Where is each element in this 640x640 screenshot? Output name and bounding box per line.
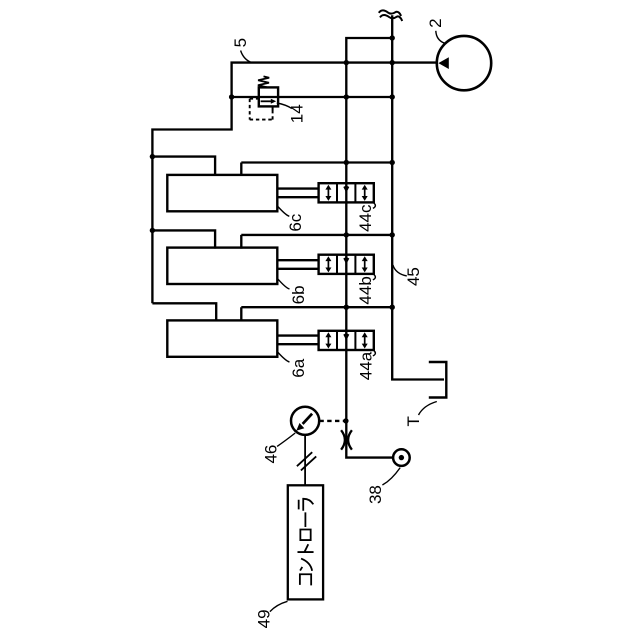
- leader for label 5: [241, 51, 252, 63]
- junction right rail / rung 6c: [390, 160, 395, 165]
- svg-text:6c: 6c: [286, 213, 305, 231]
- tank T symbol: [429, 362, 447, 398]
- cylinder 6c body: [167, 175, 277, 211]
- pump 2 circle: [437, 36, 491, 90]
- junction left rail / rung 6c: [344, 160, 349, 165]
- relief valve 14 spring: [258, 76, 269, 87]
- junction left rail / gauge pilot line: [343, 418, 348, 423]
- katakana to: [297, 544, 313, 552]
- valve 44c supply arrowhead on rail: [343, 185, 349, 192]
- svg-text:T: T: [404, 416, 423, 426]
- valve 44a cell dividers: [337, 331, 355, 350]
- relief valve 14 flow arrow: [261, 100, 272, 102]
- leader for label 44c: [373, 203, 376, 208]
- wire: branch to cylinder 6a head: [152, 303, 216, 321]
- leader for label 38: [382, 468, 400, 485]
- katakana n: [300, 559, 312, 571]
- cylinder 6a body: [167, 320, 277, 356]
- svg-text:5: 5: [231, 38, 250, 47]
- leader for label 14: [277, 103, 292, 109]
- svg-text:6b: 6b: [289, 285, 308, 304]
- cylinder 6b body: [167, 248, 277, 284]
- valve 44a right-cell double arrow: [362, 332, 368, 348]
- junction left rail / rung 6a: [344, 305, 349, 310]
- svg-text:44b: 44b: [356, 276, 375, 304]
- svg-text:2: 2: [426, 18, 445, 27]
- pressure sensor 38: [393, 449, 410, 466]
- svg-text:49: 49: [255, 609, 274, 628]
- wire: rung for valve 44b and cylinder 6b: [241, 235, 392, 249]
- wire: rung for valve 44c and cylinder 6c: [241, 163, 392, 177]
- valve 44c body: [319, 183, 374, 202]
- wire: line 5 (pump line, vertical drop, horizontal, manifold): [152, 63, 437, 304]
- junction right rail / relief line: [390, 94, 395, 99]
- valve 44b supply arrowhead on rail: [343, 257, 349, 264]
- valve 44c right-cell double arrow: [362, 185, 368, 201]
- junction dots: [150, 35, 395, 423]
- signal break slashes: [297, 452, 316, 470]
- controller 49 katakana text (hand-drawn strokes): [297, 499, 313, 586]
- valve 44a left-cell double arrow: [325, 332, 331, 348]
- valve 44b cell dividers: [337, 255, 355, 274]
- leader for label 49: [270, 601, 288, 611]
- katakana long bar: [304, 512, 306, 527]
- text labels (rotated 90 ccw): [231, 18, 445, 628]
- katakana ko: [300, 574, 311, 585]
- katakana ra: [299, 499, 314, 511]
- junction left rail / rung 6b: [344, 232, 349, 237]
- leader for label 6a: [278, 352, 290, 362]
- leader for label 45: [393, 265, 407, 276]
- svg-text:38: 38: [366, 485, 385, 504]
- relief valve 14 pilot stub: [272, 106, 274, 110]
- svg-text:6a: 6a: [289, 358, 308, 377]
- katakana ro: [300, 530, 310, 541]
- leader for label 44b: [373, 275, 376, 280]
- valve 44b left-cell double arrow: [325, 256, 331, 272]
- pump 2 output triangle: [438, 57, 448, 69]
- pipe break squiggle at top of right rail: [379, 10, 402, 21]
- svg-text:44a: 44a: [356, 351, 375, 380]
- wire: relief line y=97: [231, 96, 392, 98]
- junction manifold / branch 6c: [150, 154, 155, 159]
- leader lines: [241, 31, 445, 612]
- wire: rod lines cylinder 6c to valve 44c: [277, 189, 318, 198]
- relief valve 14 dashed pilot box: [250, 99, 273, 120]
- wire: branch to cylinder 6c head: [152, 157, 215, 176]
- junction manifold / branch 6b: [150, 228, 155, 233]
- wire: branch to cylinder 6b head: [152, 230, 215, 248]
- valve 44b right-cell double arrow: [362, 256, 368, 272]
- pressure gauge 46: [291, 407, 319, 435]
- valve 44b body: [319, 255, 374, 274]
- wire: rung for valve 44a and cylinder 6a: [241, 307, 392, 321]
- wire: signal line gauge to controller: [304, 435, 306, 486]
- junction left rail / relief line: [344, 94, 349, 99]
- valve 44c left-cell double arrow: [325, 185, 367, 349]
- svg-text:14: 14: [287, 104, 306, 123]
- svg-text:44c: 44c: [356, 204, 375, 232]
- valve 44a body: [319, 331, 374, 350]
- junction right rail / pump line: [390, 60, 395, 65]
- leader for label T: [419, 402, 437, 416]
- svg-text:45: 45: [404, 267, 423, 286]
- gauge 46 needle: [303, 414, 313, 424]
- shutoff/throttle valve on pilot line: [341, 430, 352, 450]
- relief valve 14 body: [250, 76, 278, 119]
- leader for label 44a: [373, 351, 376, 356]
- valve 44c cell dividers: [337, 183, 355, 202]
- leader for label 6b: [278, 279, 290, 289]
- wire: rod lines cylinder 6b to valve 44b: [277, 260, 318, 269]
- dashed pilot line gauge to rail: [319, 420, 344, 422]
- junction right rail / top rung: [390, 35, 395, 40]
- wire: right rail (pump discharge line) vertical + tank feed: [392, 15, 444, 379]
- junction left rail / pump line: [344, 60, 349, 65]
- leader for label 6c: [277, 206, 289, 216]
- valve 44a supply arrowhead on rail: [343, 333, 349, 340]
- wire: rod lines cylinder 6a to valve 44a: [277, 336, 318, 345]
- leader for label 2: [436, 31, 445, 43]
- svg-text:46: 46: [262, 445, 281, 464]
- leader for label 46: [277, 433, 295, 446]
- controller 49 box: [288, 485, 323, 599]
- junction right rail / rung 6b: [390, 232, 395, 237]
- junction right rail / rung 6a: [390, 305, 395, 310]
- junction line5 / relief line: [229, 94, 234, 99]
- wire: top rung connecting rails + left rail (line 45) + bottom elbow to sensor: [346, 38, 393, 458]
